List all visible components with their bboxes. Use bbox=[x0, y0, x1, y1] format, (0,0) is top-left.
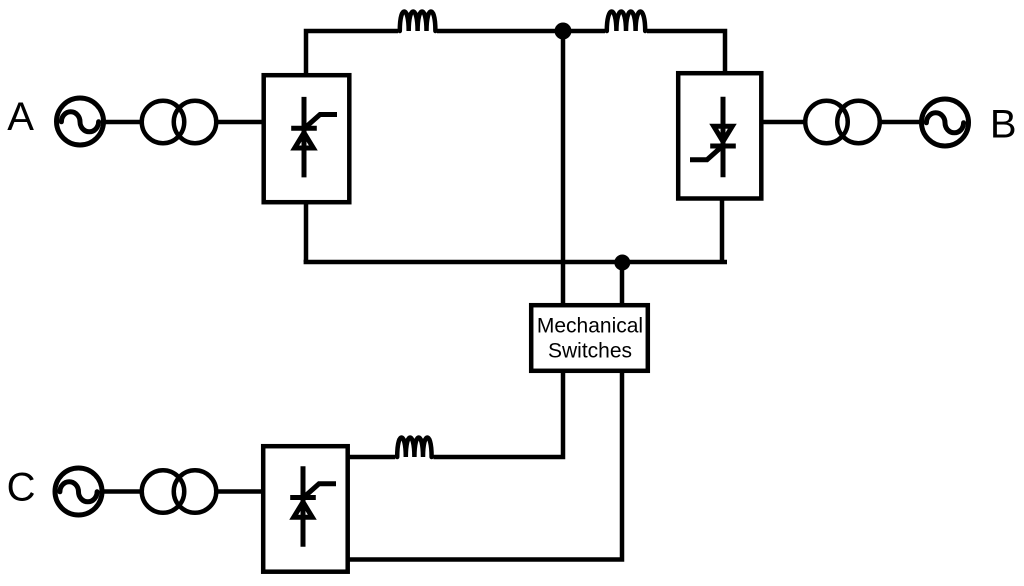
wire from bottom node down to switches and corner to U3 bottom bbox=[348, 262, 622, 560]
inductor L1 bbox=[400, 12, 436, 32]
wire U2 bottom to bottom bus bbox=[720, 200, 725, 262]
svg-text:B: B bbox=[990, 103, 1017, 147]
Mechanical Switches box bbox=[531, 305, 648, 371]
wire from top node down through bus to switches and corner to L3 bbox=[434, 31, 564, 457]
inductor L3 bbox=[397, 438, 431, 458]
wire U3 right top to inductor L3 bbox=[348, 455, 395, 460]
converter U2 box bbox=[678, 73, 761, 198]
node dot top bus bbox=[555, 23, 572, 40]
AC source A bbox=[57, 98, 104, 145]
wire top bus right: L2 to U2 top bbox=[647, 31, 725, 74]
svg-text:C: C bbox=[7, 465, 36, 509]
wire transformer B to source B bbox=[879, 120, 922, 125]
transformer A bbox=[142, 101, 217, 144]
inductor L2 bbox=[607, 12, 645, 32]
svg-text:Mechanical: Mechanical bbox=[537, 315, 643, 338]
thyristor inside U1 bbox=[291, 97, 337, 178]
wire top bus left: U1 top to inductor L1 bbox=[306, 31, 398, 75]
transformer C bbox=[142, 470, 217, 513]
bottom bus wire bbox=[304, 260, 727, 265]
wire transformer A to converter U1 bbox=[217, 120, 264, 125]
transformer B bbox=[805, 101, 880, 144]
wire source C to transformer bbox=[102, 489, 142, 494]
converter U1 box bbox=[264, 75, 350, 202]
AC source B bbox=[922, 99, 969, 146]
thyristor inside U2 (rotated 180) bbox=[690, 97, 736, 178]
node dot bottom bus bbox=[614, 255, 630, 271]
wire U2 right to transformer B bbox=[762, 120, 807, 125]
svg-text:Switches: Switches bbox=[548, 339, 632, 362]
wire U1 bottom to bottom bus bbox=[304, 204, 309, 262]
converter U3 box bbox=[263, 446, 348, 572]
wire source A to transformer bbox=[104, 120, 143, 125]
thyristor inside U3 bbox=[290, 466, 336, 547]
wire top bus middle: L1 to L2 through node bbox=[437, 29, 605, 34]
wire transformer C to converter U3 bbox=[217, 489, 264, 494]
svg-text:A: A bbox=[7, 95, 34, 139]
AC source C bbox=[55, 468, 102, 515]
